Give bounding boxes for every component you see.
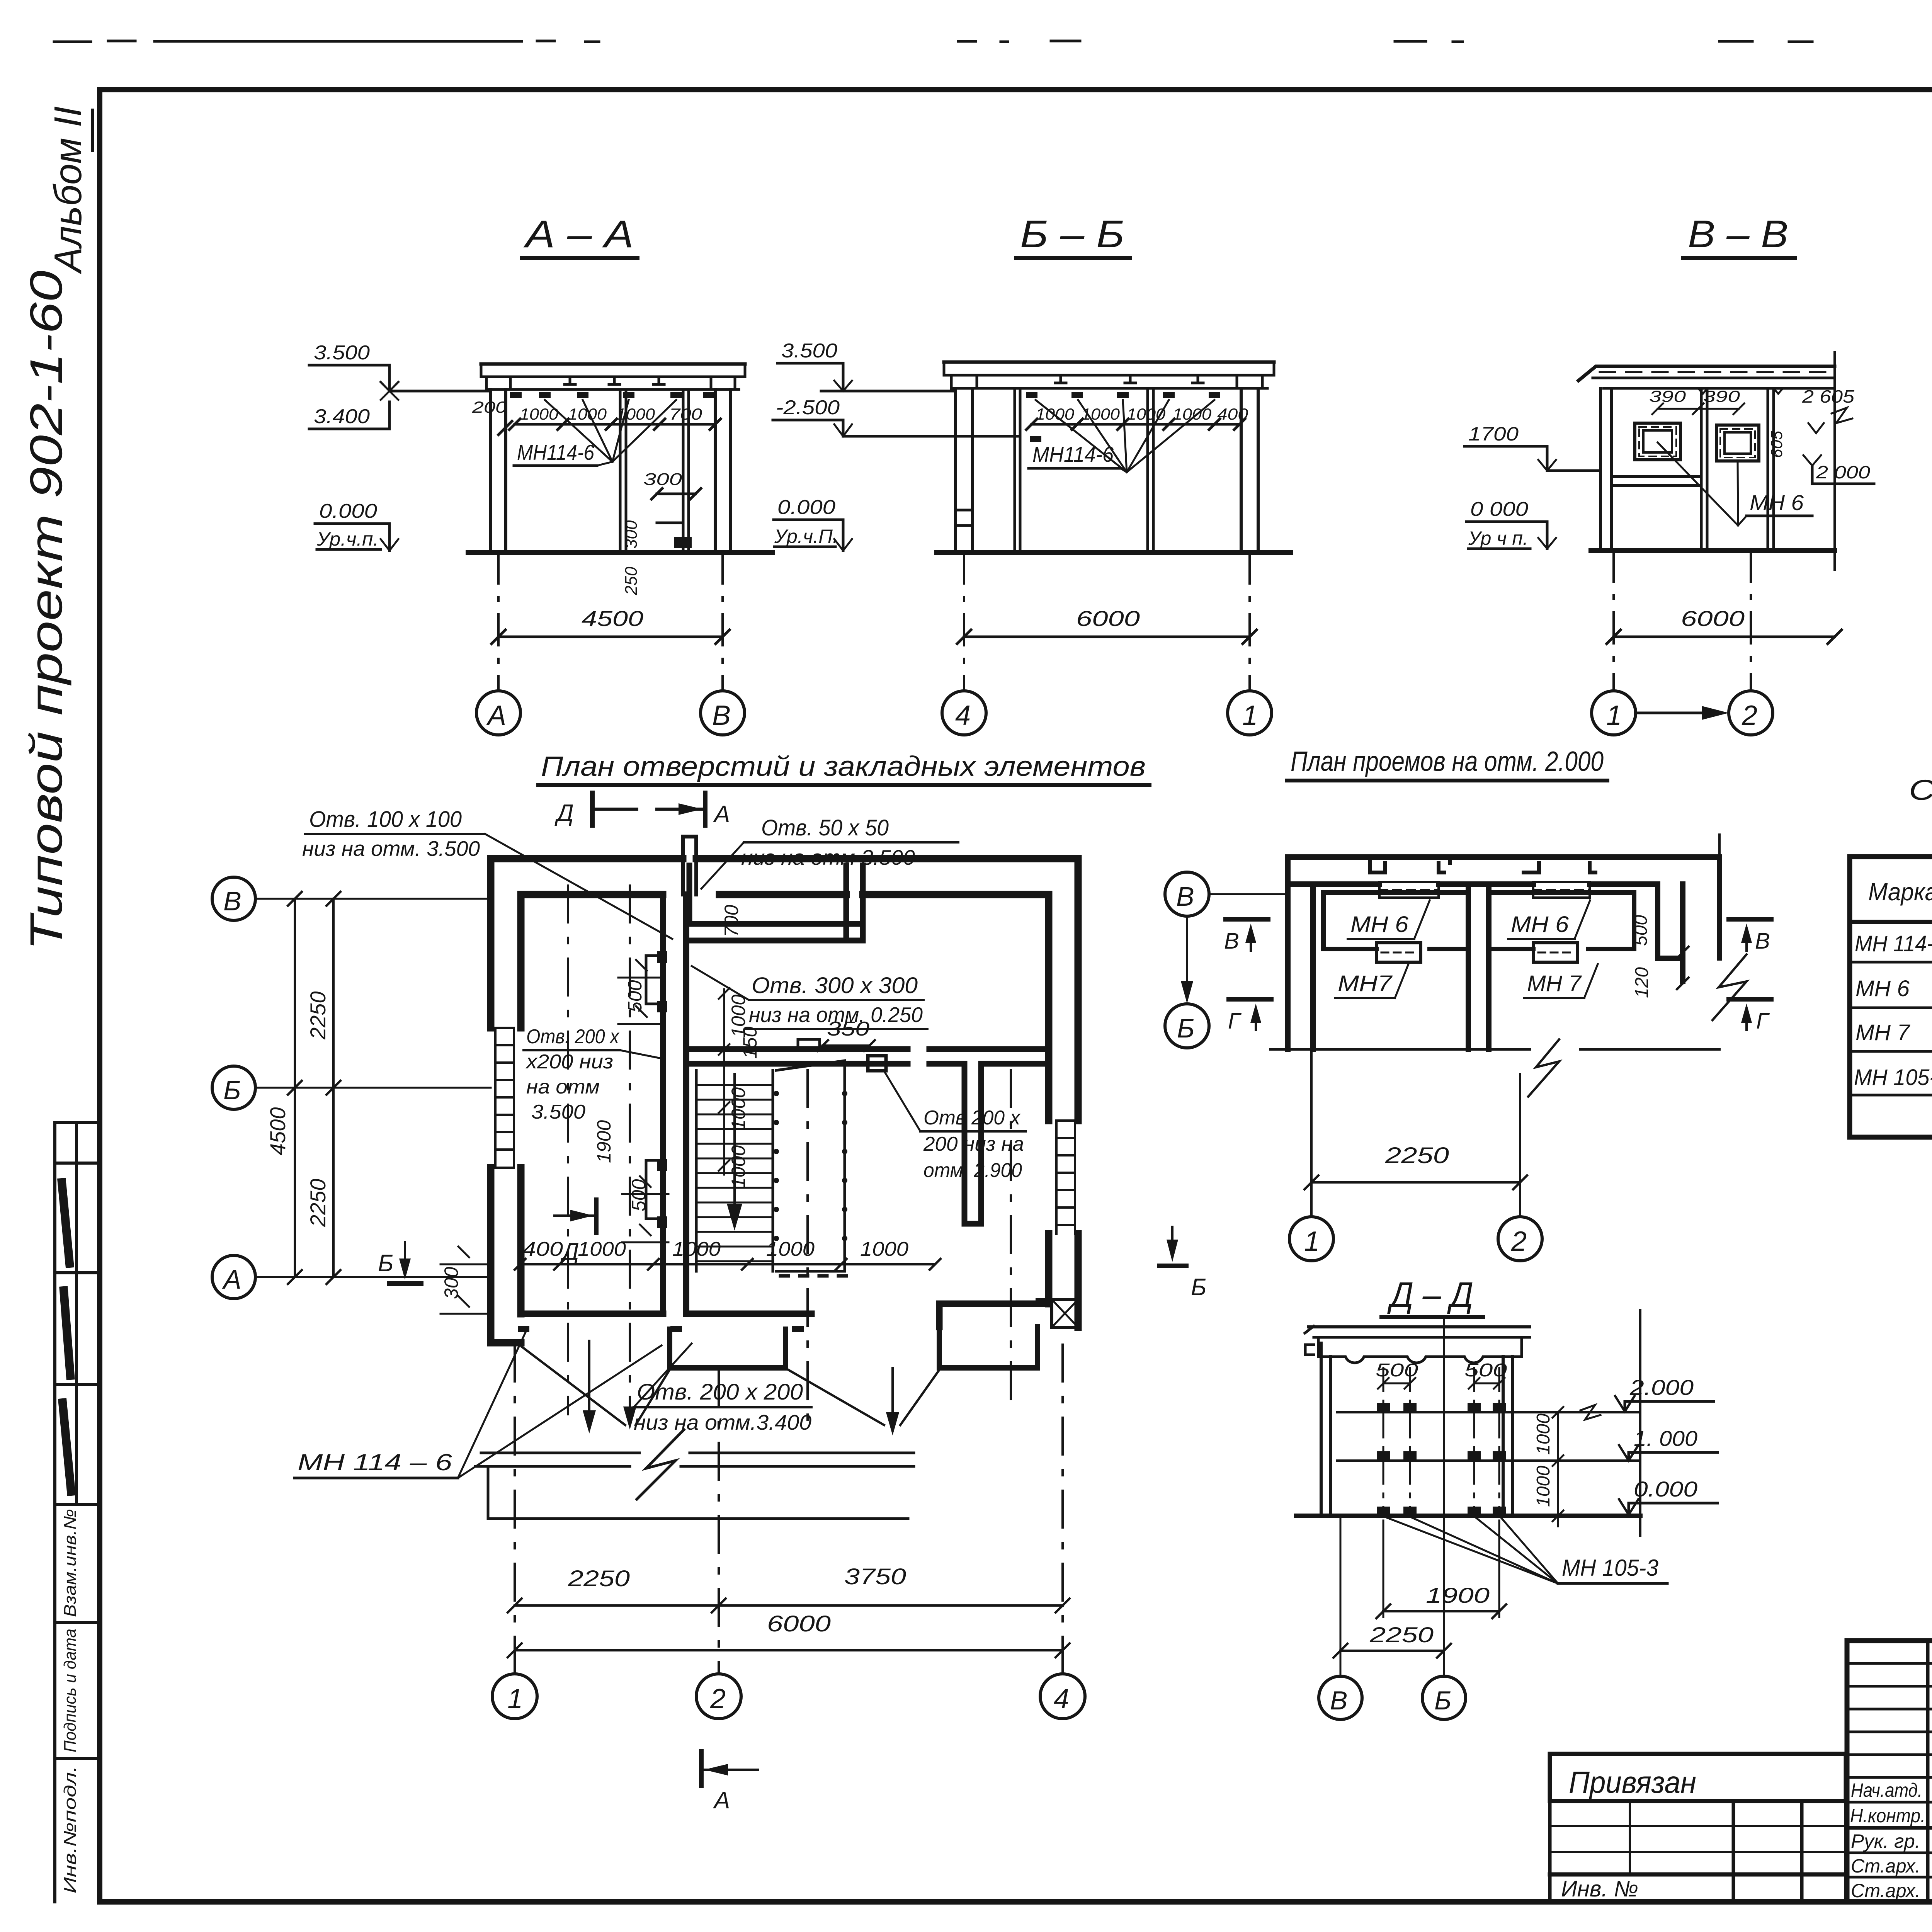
- top trim dashed line: [54, 41, 1932, 43]
- exterior wall top: [491, 837, 1078, 895]
- section mark A bottom: [701, 1751, 758, 1814]
- grid bubble V left: [212, 877, 491, 920]
- svg-text:3.500: 3.500: [531, 1101, 585, 1123]
- plan2 MH7 opening 1: [1376, 943, 1421, 962]
- plan2 bay box 2: [1489, 893, 1634, 949]
- svg-text:В: В: [712, 700, 731, 731]
- axis dashed lines V-V: [1614, 551, 1751, 691]
- svg-text:Ур.ч.п.: Ур.ч.п.: [316, 528, 379, 550]
- svg-text:3.500: 3.500: [314, 342, 370, 364]
- intake channel below plan: [475, 1430, 914, 1519]
- note Отв 100x100: [302, 807, 672, 939]
- svg-text:300: 300: [622, 520, 641, 549]
- grid bubble 1 plan: [492, 1674, 537, 1719]
- D-D level flags: [1615, 1375, 1718, 1515]
- plan2 title: [1287, 746, 1607, 781]
- note Отв 300x300: [692, 966, 927, 1029]
- svg-text:2250: 2250: [1385, 1143, 1449, 1168]
- level flag -2.500 B-B: [773, 396, 1020, 436]
- svg-text:В: В: [223, 886, 241, 916]
- svg-text:1700: 1700: [1468, 423, 1519, 445]
- stamp smudged entries: [62, 1182, 71, 1492]
- svg-text:2: 2: [710, 1684, 726, 1714]
- roof slab V-V: [1578, 366, 1835, 394]
- svg-text:500: 500: [1464, 1360, 1507, 1381]
- column row B: [711, 377, 735, 553]
- svg-text:120: 120: [1632, 967, 1652, 998]
- right cut edge V-V: [1833, 352, 1836, 570]
- level flag 0.000 V-V: [1466, 498, 1556, 549]
- svg-text:Б – Б: Б – Б: [1020, 213, 1124, 256]
- svg-text:Ст.арх.: Ст.арх.: [1851, 1880, 1920, 1901]
- svg-text:МН 114 – 6: МН 114 – 6: [298, 1449, 452, 1475]
- svg-text:Б: Б: [1191, 1274, 1206, 1301]
- D-D anchor axis dash lines: [1383, 1368, 1499, 1515]
- svg-text:4: 4: [955, 700, 971, 731]
- note Отв 200x200 bottom: [634, 1344, 811, 1434]
- svg-text:1. 000: 1. 000: [1634, 1426, 1697, 1451]
- plan2 cut continuation line: [1718, 835, 1721, 857]
- grid bubble 2 V-V: [1729, 691, 1773, 735]
- svg-text:390: 390: [1703, 387, 1740, 405]
- svg-text:4500: 4500: [582, 606, 643, 631]
- svg-text:300: 300: [440, 1267, 462, 1299]
- column row 1: [1237, 375, 1262, 553]
- embedded anchors B-B: [1026, 392, 1220, 442]
- spec table grid: [1850, 857, 1932, 1137]
- ground line: [468, 550, 772, 555]
- svg-text:МН7: МН7: [1338, 971, 1393, 996]
- spec row MH114-6: [1855, 929, 1932, 956]
- column row A: [486, 377, 510, 553]
- svg-text:МН 6: МН 6: [1350, 912, 1409, 937]
- svg-text:В – В: В – В: [1688, 213, 1788, 256]
- level flag 0.000 / floor: [315, 500, 398, 551]
- opening 200x200 block: [868, 1056, 886, 1071]
- svg-text:МН 7: МН 7: [1527, 971, 1582, 996]
- spec row MH105-3: [1854, 1063, 1932, 1090]
- svg-text:Рук. гр.: Рук. гр.: [1851, 1830, 1920, 1852]
- overall dimension 6000 V-V: [1607, 606, 1842, 644]
- D-D anchors MH105-3: [1377, 1403, 1506, 1516]
- svg-text:х200 низ: х200 низ: [525, 1051, 613, 1073]
- plan2 dims 500 120: [1631, 915, 1689, 998]
- svg-text:700: 700: [669, 405, 702, 423]
- svg-text:Подпись и дата: Подпись и дата: [61, 1629, 80, 1752]
- svg-text:МН114-6: МН114-6: [1032, 442, 1114, 466]
- svg-text:низ на отм. 3.500: низ на отм. 3.500: [302, 837, 480, 861]
- svg-text:3750: 3750: [844, 1564, 906, 1589]
- svg-text:на отм: на отм: [526, 1076, 600, 1098]
- svg-text:Д – Д: Д – Д: [1387, 1275, 1473, 1315]
- plan2 top wall: [1289, 857, 1719, 884]
- D-D level lines: [1337, 1412, 1640, 1461]
- corridor wall vertical: [646, 895, 686, 1314]
- svg-text:Б: Б: [223, 1075, 241, 1105]
- level flag 0.000 B-B: [774, 496, 852, 551]
- plan2 ground line: [1270, 1039, 1719, 1097]
- svg-text:Привязан: Привязан: [1569, 1765, 1696, 1799]
- svg-text:Ур.ч.П.: Ур.ч.П.: [774, 526, 838, 547]
- sill band V-V: [1612, 476, 1698, 486]
- svg-text:200 низ на: 200 низ на: [923, 1133, 1024, 1155]
- D-D label MH105-3: [1387, 1518, 1667, 1583]
- svg-text:2 000: 2 000: [1816, 462, 1871, 482]
- label MH6: [1658, 442, 1812, 526]
- svg-text:МН 114-6: МН 114-6: [1855, 931, 1932, 956]
- svg-text:2: 2: [1742, 700, 1757, 731]
- title block verticals left grid: [1928, 1641, 1932, 1902]
- svg-text:700: 700: [721, 905, 742, 937]
- grid bubble A: [476, 691, 520, 735]
- dim 6000 plan: [508, 1611, 1070, 1657]
- stamp rotated captions: [61, 1509, 80, 1893]
- svg-text:Взам.инв.№: Взам.инв.№: [61, 1509, 80, 1617]
- note Отв 200x200 right: [923, 1107, 1024, 1182]
- svg-text:500: 500: [624, 980, 646, 1012]
- svg-text:Г: Г: [1756, 1009, 1770, 1034]
- svg-text:1: 1: [1304, 1226, 1320, 1257]
- svg-text:Отв. 50 х 50: Отв. 50 х 50: [761, 815, 889, 840]
- svg-text:1000: 1000: [728, 1145, 749, 1188]
- funnel diagonals under building: [522, 1347, 939, 1425]
- room 700 walls: [689, 866, 863, 940]
- plan2 grid bubble 1: [1289, 1217, 1333, 1261]
- roof slab A-A: [481, 364, 745, 389]
- svg-text:2250: 2250: [306, 991, 330, 1040]
- stair flight treads: [696, 1070, 773, 1271]
- window opening MH6 left: [1635, 423, 1680, 460]
- svg-text:2 605: 2 605: [1802, 386, 1855, 406]
- svg-text:1: 1: [1606, 700, 1622, 731]
- T partition wall: [929, 1049, 1049, 1224]
- privyazan grid: [1550, 1801, 1846, 1902]
- placeholder groups appended below: [309, 213, 772, 735]
- plan2 labels MH7: [1335, 964, 1598, 998]
- ground line B-B: [937, 550, 1291, 555]
- plan1 title: [538, 751, 1150, 785]
- anchor spacing dimension: [472, 398, 721, 435]
- level flag 3.500 B-B: [777, 340, 956, 391]
- svg-text:низ на отм.3.400: низ на отм.3.400: [634, 1410, 811, 1434]
- section B-B title: [1016, 213, 1130, 258]
- dims 390 390: [1649, 387, 1744, 414]
- grid bubble B plan2: [1165, 1004, 1209, 1048]
- left wall louvre channel: [495, 1028, 514, 1168]
- intermediate posts B-B: [1015, 388, 1153, 553]
- svg-text:1: 1: [507, 1684, 523, 1714]
- svg-text:6000: 6000: [1076, 606, 1140, 631]
- label MH114-6 plan: [294, 1332, 662, 1478]
- svg-text:В: В: [1176, 881, 1194, 912]
- svg-text:400: 400: [1217, 405, 1248, 423]
- D-D dim 2250: [1333, 1622, 1451, 1658]
- svg-text:6000: 6000: [1681, 606, 1745, 631]
- plan2 lintel slab MH6 no2: [1524, 863, 1595, 898]
- svg-text:500: 500: [1631, 915, 1651, 946]
- plan2 labels MH6: [1348, 900, 1590, 939]
- grid bubble V plan2: [1165, 872, 1289, 916]
- D-D cut line right: [1639, 1310, 1641, 1536]
- wall anchor marks: [518, 951, 1047, 1332]
- grid bubble 4 plan: [1040, 1674, 1085, 1719]
- stair down arrow: [727, 1074, 742, 1231]
- exterior wall left: [491, 859, 521, 1343]
- svg-text:Б: Б: [1434, 1686, 1451, 1715]
- svg-text:МН 7: МН 7: [1855, 1020, 1911, 1045]
- svg-text:2.000: 2.000: [1629, 1375, 1694, 1400]
- D-D right wall: [1503, 1357, 1512, 1515]
- left wall V-V: [1600, 388, 1612, 551]
- svg-text:2250: 2250: [1369, 1622, 1434, 1647]
- plan2 right edge step: [1658, 857, 1719, 981]
- svg-text:МН 6: МН 6: [1511, 912, 1569, 937]
- pit tab right: [939, 1327, 1037, 1368]
- svg-text:Д: Д: [560, 1238, 579, 1265]
- svg-text:Нач.атд.: Нач.атд.: [1851, 1779, 1922, 1801]
- svg-text:Марка: Марка: [1868, 878, 1932, 906]
- section V-V title: [1683, 213, 1795, 258]
- label MH114-6 B-B: [1029, 400, 1214, 472]
- plan2 bay box 1: [1323, 893, 1468, 949]
- plan2 axis lines down: [1311, 1049, 1520, 1216]
- intermediate posts: [620, 389, 689, 553]
- dim 2250 3750: [508, 1564, 1070, 1612]
- svg-text:150: 150: [739, 1026, 761, 1059]
- svg-text:отм. 2.900: отм. 2.900: [923, 1159, 1022, 1182]
- D-D ground line: [1296, 1514, 1640, 1518]
- duct axis dash lines: [568, 886, 1011, 1430]
- svg-text:Б: Б: [378, 1250, 393, 1277]
- plan2 dim 2250: [1304, 1143, 1527, 1189]
- left margin stamp table: [55, 1122, 100, 1902]
- svg-text:4: 4: [1054, 1684, 1069, 1714]
- plan2 section marks G left: [1228, 999, 1271, 1034]
- grid bubble B: [701, 691, 745, 735]
- svg-text:1000: 1000: [672, 1238, 721, 1260]
- svg-text:400: 400: [522, 1238, 563, 1260]
- svg-text:0.000: 0.000: [319, 500, 377, 522]
- plan2 section marks V left: [1224, 919, 1268, 954]
- bottom inner dimension row: [515, 1238, 940, 1270]
- embedded anchors MH114-6: [510, 392, 715, 398]
- svg-text:1000: 1000: [578, 1238, 626, 1260]
- title block staff rows: [1847, 1802, 1932, 1877]
- plan2 grid bubble 2: [1498, 1217, 1542, 1261]
- axis dashed lines B-B: [964, 553, 1250, 691]
- svg-text:А: А: [222, 1264, 241, 1294]
- window opening MH6 right: [1716, 425, 1759, 461]
- grid bubble 2 plan: [696, 1674, 741, 1719]
- direction arrow 1 to 2: [1636, 706, 1729, 720]
- svg-text:Инв. №: Инв. №: [1561, 1876, 1638, 1901]
- ground line V-V: [1591, 548, 1835, 553]
- svg-text:1000: 1000: [616, 405, 655, 423]
- corner pier with cross: [1052, 1299, 1078, 1327]
- svg-text:3.500: 3.500: [781, 340, 837, 362]
- svg-text:Альбом II: Альбом II: [46, 106, 90, 274]
- D-D roof slab: [1305, 1326, 1530, 1363]
- svg-text:План проемов на отм. 2.000: План проемов на отм. 2.000: [1291, 746, 1604, 777]
- underline of roman II: [91, 110, 94, 151]
- mid pier V-V: [1701, 388, 1774, 551]
- svg-text:Типовой проект 902-1-60: Типовой проект 902-1-60: [21, 270, 72, 951]
- spec row MH7: [1855, 1018, 1932, 1045]
- svg-text:Ур ч п.: Ур ч п.: [1468, 527, 1528, 549]
- svg-text:3.400: 3.400: [314, 405, 370, 428]
- svg-text:6000: 6000: [767, 1611, 831, 1636]
- axis dashed lines A-A: [498, 553, 723, 691]
- title block outer: [1847, 1641, 1932, 1902]
- svg-text:Отв. 300 х 300: Отв. 300 х 300: [752, 973, 918, 998]
- dim 350: [817, 1018, 875, 1051]
- spec table heading: [1909, 774, 1932, 843]
- plan2 section marks G right: [1729, 999, 1771, 1034]
- svg-text:В: В: [1330, 1686, 1347, 1715]
- section A-A title: [522, 213, 638, 258]
- svg-text:0.000: 0.000: [777, 496, 835, 519]
- svg-text:1000: 1000: [728, 1087, 749, 1130]
- privyazan box: [1550, 1754, 1846, 1801]
- svg-text:В: В: [1224, 929, 1239, 954]
- left vertical dimension chain: [265, 892, 340, 1284]
- plan2 left pier: [1288, 857, 1313, 1049]
- overall dimension 4500: [492, 606, 730, 644]
- svg-text:1900: 1900: [1426, 1583, 1490, 1607]
- svg-text:В: В: [1755, 929, 1770, 954]
- svg-text:0 000: 0 000: [1470, 498, 1528, 520]
- svg-text:Инв.№подл.: Инв.№подл.: [61, 1766, 80, 1893]
- section mark B plan left: [378, 1242, 421, 1284]
- bottom wall: [521, 1304, 1049, 1327]
- svg-text:МН 105-3: МН 105-3: [1562, 1555, 1658, 1581]
- D-D dim 1900: [1376, 1520, 1506, 1618]
- svg-text:0.000: 0.000: [1634, 1477, 1697, 1501]
- level flag 1700 V-V: [1464, 423, 1600, 471]
- small dim ticks in plan: [440, 960, 730, 1314]
- svg-text:А – А: А – А: [523, 213, 634, 256]
- svg-text:2250: 2250: [306, 1179, 330, 1227]
- plan2 break zigzag: [1713, 954, 1747, 1020]
- column row 4: [951, 375, 977, 553]
- rotated small dims in plan: [440, 905, 761, 1299]
- svg-text:МН 105-3: МН 105-3: [1854, 1065, 1932, 1090]
- plan2 section marks V right: [1729, 919, 1771, 954]
- svg-text:А: А: [713, 1787, 730, 1814]
- svg-text:500: 500: [1376, 1360, 1418, 1381]
- svg-text:1000: 1000: [1533, 1413, 1554, 1455]
- staff role texts: [1850, 1779, 1932, 1901]
- svg-text:1000: 1000: [860, 1238, 908, 1260]
- grid bubble B left: [212, 1066, 491, 1109]
- plan2 MH7 opening 2: [1533, 943, 1578, 962]
- axis arrow V to B: [1181, 917, 1193, 1003]
- svg-text:250: 250: [622, 566, 641, 595]
- duct flow arrows: [583, 1341, 899, 1435]
- dim 2000 flag: [1803, 455, 1874, 484]
- svg-text:Б: Б: [1177, 1013, 1195, 1043]
- svg-text:А: А: [486, 700, 506, 731]
- roof slab B-B: [944, 362, 1274, 388]
- svg-text:-2.500: -2.500: [776, 396, 840, 419]
- svg-text:Спецификация к схеме распол: Спецификация к схеме расположения: [1909, 774, 1932, 806]
- section mark D bottom: [554, 1200, 596, 1265]
- svg-text:4500: 4500: [265, 1107, 290, 1155]
- stair upper flight: [774, 1061, 847, 1276]
- stair mid landing wall: [689, 1039, 908, 1064]
- D-D grid bubble V: [1319, 1676, 1362, 1719]
- svg-text:МН 6: МН 6: [1750, 490, 1804, 515]
- note Отв 200x200 left: [525, 1026, 620, 1123]
- spec table header texts: [1868, 874, 1932, 906]
- anchor spacing dimension B-B: [1026, 405, 1248, 430]
- svg-text:605: 605: [1767, 430, 1786, 458]
- label MH114-6: [514, 400, 676, 466]
- D-D left wall: [1321, 1343, 1330, 1515]
- svg-text:1000: 1000: [766, 1238, 815, 1260]
- section mark D top: [554, 793, 637, 827]
- svg-text:Отв. 100 х 100: Отв. 100 х 100: [309, 807, 462, 832]
- svg-text:Д: Д: [554, 800, 574, 827]
- svg-text:2250: 2250: [568, 1566, 630, 1591]
- exterior wall right: [1049, 859, 1078, 1327]
- pit tab left: [670, 1329, 786, 1368]
- svg-text:200: 200: [472, 398, 507, 416]
- D-D grid bubble B: [1422, 1676, 1466, 1719]
- section D-D title: [1381, 1275, 1483, 1317]
- svg-text:2: 2: [1511, 1226, 1527, 1257]
- svg-text:300: 300: [643, 470, 682, 489]
- svg-text:Н.контр.: Н.контр.: [1850, 1805, 1925, 1827]
- spec row MH6: [1855, 974, 1932, 1001]
- svg-text:МН 6: МН 6: [1855, 976, 1910, 1001]
- level flag 3.500: [309, 342, 491, 400]
- svg-text:МН114-6: МН114-6: [517, 440, 595, 464]
- svg-text:1000: 1000: [1533, 1466, 1554, 1507]
- plan2 section mark B bottom left: [1159, 1227, 1206, 1301]
- section mark A top: [657, 793, 730, 828]
- level flag 3.400: [309, 402, 389, 429]
- svg-text:1900: 1900: [593, 1120, 615, 1163]
- grid bubble 1: [1228, 691, 1272, 735]
- svg-text:План отверстий и закладных эле: План отверстий и закладных элементов: [541, 751, 1146, 782]
- D-D axis drop lines: [1340, 1320, 1444, 1676]
- plan2 lintel slab MH6 no1: [1370, 857, 1450, 898]
- overall dimension 6000 B-B: [957, 606, 1257, 644]
- note Отв 50x50: [701, 815, 958, 889]
- dim 2605: [1802, 386, 1855, 433]
- svg-text:Отв 200 х: Отв 200 х: [923, 1107, 1021, 1129]
- svg-text:А: А: [713, 801, 730, 828]
- svg-text:350: 350: [827, 1018, 869, 1040]
- svg-text:1000: 1000: [1036, 405, 1075, 423]
- grid bubble 1 V-V: [1592, 691, 1636, 735]
- svg-text:1: 1: [1242, 700, 1258, 731]
- D-D dims 500 500: [1376, 1360, 1507, 1389]
- D-D vertical dims 1000 1000: [1533, 1405, 1600, 1526]
- svg-text:Ст.арх.: Ст.арх.: [1851, 1855, 1920, 1877]
- title block small rows: [1847, 1663, 1932, 1777]
- svg-text:Г: Г: [1228, 1009, 1242, 1034]
- step detail dims 300/300/250: [622, 470, 701, 595]
- svg-text:390: 390: [1649, 387, 1686, 405]
- axis lines to bottom bubbles: [515, 1345, 1063, 1673]
- grid bubble A left: [212, 1255, 491, 1299]
- plan2 mid pier: [1468, 884, 1489, 1049]
- right wall louvre channel: [1056, 1121, 1075, 1234]
- svg-text:Отв. 200 х: Отв. 200 х: [526, 1026, 620, 1048]
- grid bubble 4: [942, 691, 986, 735]
